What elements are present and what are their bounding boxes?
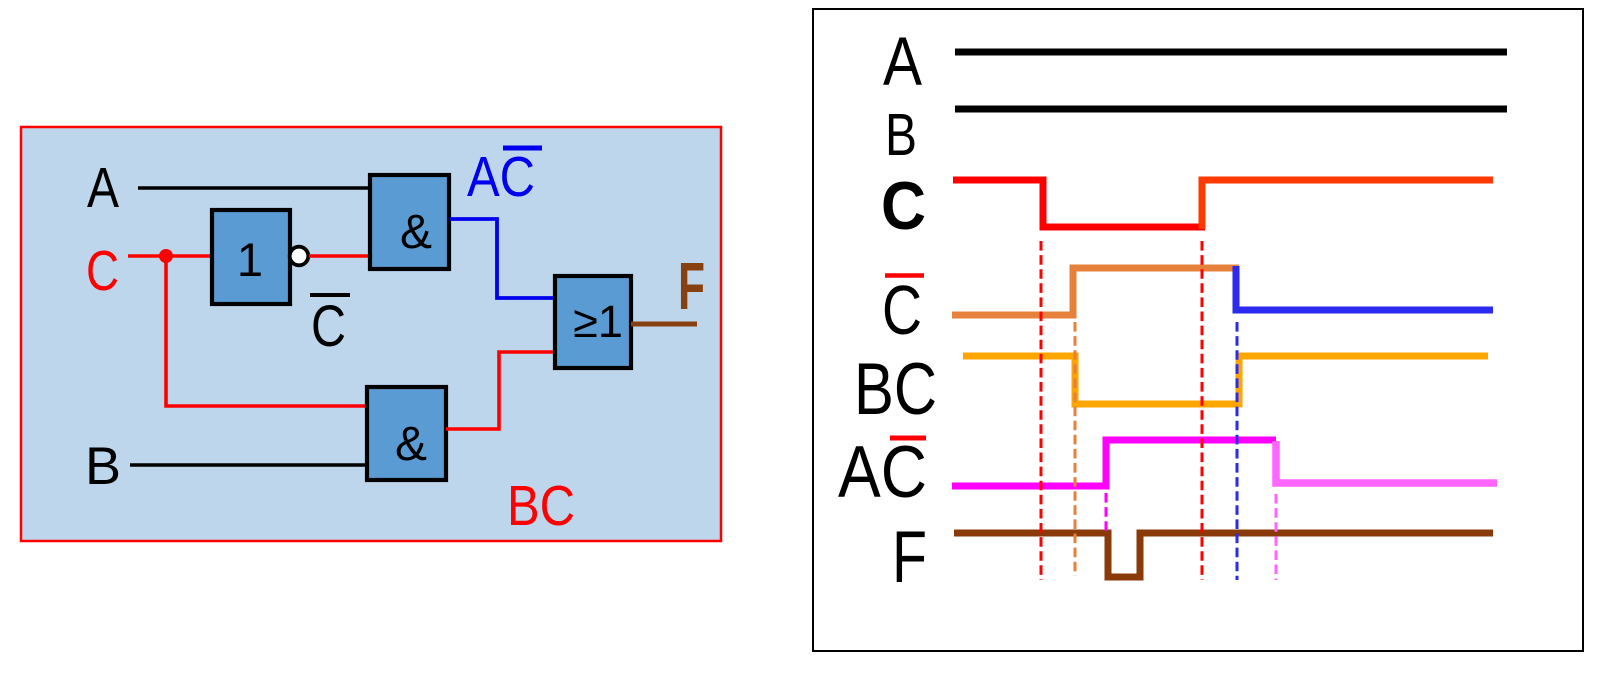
svg-text:BC: BC [507,474,575,538]
timing diagram frame [813,9,1583,651]
signal label Cbar [882,271,924,349]
wire BC from U3 to OR gate U4 [446,352,556,429]
dashed marker ACbar rise [1105,493,1108,531]
svg-text:B: B [85,437,121,496]
waveform ACbar pink part [1276,441,1497,483]
svg-text:F: F [678,249,705,324]
svg-text:AC: AC [838,432,927,513]
svg-text:C: C [311,294,346,359]
dashed marker C rise [1201,241,1204,580]
inverter U1 body [212,210,290,304]
circuit panel background box [21,127,721,541]
dashed marker C fall [1040,241,1043,580]
waveform C red part [953,180,1205,227]
svg-text:&: & [400,206,432,259]
svg-text:A: A [883,23,922,100]
signal label ACbar [838,432,927,513]
inverter output bubble [290,247,309,266]
svg-text:C: C [86,239,119,303]
wire B to AND gate U3 [130,463,367,467]
wire C down from junction [166,256,368,406]
wire Cbar from bubble to AND gate U2 [309,254,371,258]
svg-text:A: A [87,156,119,220]
svg-text:BC: BC [854,349,937,430]
dashed marker ACbar fall [1275,494,1278,580]
svg-text:1: 1 [237,233,263,286]
waveform A [955,49,1507,56]
wire A to AND gate U2 [138,186,371,190]
dashed marker Cbar fall [1236,322,1239,580]
waveform ACbar magenta part [952,440,1276,486]
waveform F [954,533,1493,577]
waveform B [955,106,1507,113]
waveform C orangered part [1202,180,1493,229]
wire F output [631,322,697,327]
svg-text:C: C [882,271,922,349]
svg-text:AC: AC [467,145,535,209]
OR gate U4 body [555,276,631,368]
svg-text:B: B [885,102,917,168]
svg-text:C: C [881,168,926,244]
AND gate U2 body [370,175,449,269]
wire C to inverter U1 [128,254,212,258]
svg-text:≥1: ≥1 [573,296,623,347]
waveform Cbar orange part [952,268,1239,315]
dashed marker Cbar rise [1074,322,1077,576]
node Cbar label [310,294,350,359]
waveform BC [963,356,1488,404]
waveform Cbar blue part [1236,266,1493,310]
junction dot on C [159,249,173,263]
node ACbar label [467,145,542,209]
svg-text:&: & [395,418,427,471]
AND gate U3 body [367,387,446,480]
svg-text:F: F [892,517,927,598]
wire ACbar from U2 to OR gate U4 [450,219,556,298]
